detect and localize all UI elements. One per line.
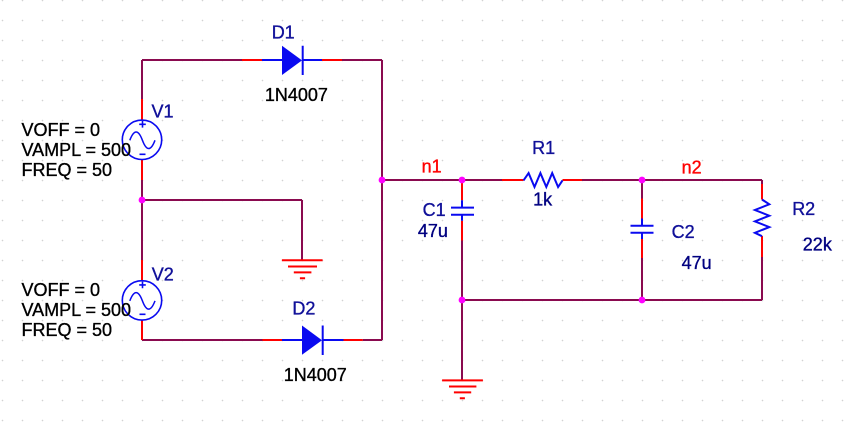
svg-text:n2: n2 [682,158,702,178]
svg-text:n1: n1 [422,156,442,176]
svg-text:R1: R1 [532,138,555,158]
svg-text:1N4007: 1N4007 [284,365,347,385]
svg-text:FREQ = 50: FREQ = 50 [22,320,113,340]
svg-text:VOFF = 0: VOFF = 0 [22,280,101,300]
svg-text:D1: D1 [272,23,295,43]
svg-text:47u: 47u [682,253,712,273]
svg-text:VAMPL = 500: VAMPL = 500 [22,140,132,160]
svg-text:V2: V2 [152,265,174,285]
svg-text:FREQ = 50: FREQ = 50 [22,160,113,180]
svg-text:V1: V1 [152,102,174,122]
svg-text:47u: 47u [418,221,448,241]
svg-text:VAMPL = 500: VAMPL = 500 [22,300,132,320]
svg-text:1N4007: 1N4007 [265,85,328,105]
svg-text:D2: D2 [292,299,315,319]
svg-text:C1: C1 [423,200,446,220]
svg-text:1k: 1k [533,190,553,210]
svg-text:22k: 22k [803,235,833,255]
svg-text:C2: C2 [672,222,695,242]
svg-text:R2: R2 [792,199,815,219]
svg-text:VOFF = 0: VOFF = 0 [22,120,101,140]
